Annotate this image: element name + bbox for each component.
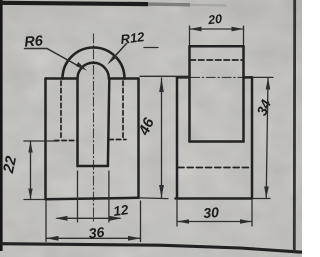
base top edge left segment bbox=[177, 76, 190, 79]
boss bottom edge bbox=[190, 140, 244, 143]
dim 22: bottom arrow bbox=[28, 189, 32, 200]
base right edge bbox=[251, 77, 254, 198]
base left edge bbox=[176, 77, 179, 198]
dim 12: dimension line bbox=[57, 217, 120, 219]
dim 46: dimension line bbox=[161, 78, 163, 198]
dim 36: dimension line bbox=[46, 237, 141, 239]
dim 34: bottom extension bbox=[254, 198, 271, 200]
dim 20: left arrow bbox=[190, 27, 202, 32]
dim 12: right extension line bbox=[108, 171, 110, 222]
leader R12 bbox=[110, 44, 127, 62]
base top edge right segment bbox=[244, 76, 253, 79]
hidden line: boss bottom left stub bbox=[55, 140, 78, 142]
dim 20: right arrow bbox=[232, 27, 244, 32]
dim 30: right arrow bbox=[240, 219, 252, 224]
dim 34: top arrow bbox=[266, 77, 271, 89]
rect left edge bbox=[44, 79, 47, 200]
svg-text:30: 30 bbox=[203, 204, 220, 221]
svg-text:20: 20 bbox=[206, 12, 222, 27]
rect right edge bbox=[137, 79, 140, 198]
page edge: right border line bbox=[293, 0, 296, 251]
dim 36: extension lines bbox=[45, 201, 47, 242]
dim 34: top extension bbox=[254, 76, 274, 78]
dim 34: bottom arrow bbox=[264, 187, 269, 199]
dim 30: dimension line bbox=[177, 221, 252, 223]
svg-text:12: 12 bbox=[112, 202, 129, 219]
hidden line: slot top level bbox=[190, 59, 243, 61]
dim 22: dimension line bbox=[30, 141, 32, 200]
dim 30: left arrow bbox=[177, 219, 189, 224]
outer arc R12 bbox=[63, 48, 125, 79]
base bottom edge bbox=[176, 197, 253, 200]
slot right edge bbox=[108, 79, 109, 167]
hidden line: boss bottom right stub bbox=[109, 139, 126, 141]
dim 46: up arrow bbox=[159, 78, 164, 92]
dim 46: down arrow bbox=[159, 185, 164, 198]
centerline (vertical axis of front view) bbox=[93, 34, 95, 222]
page edge: left black strip bbox=[0, 0, 3, 251]
dim 22: top arrow bbox=[28, 141, 32, 153]
inner arc R6 bbox=[78, 63, 109, 79]
svg-text:R12: R12 bbox=[120, 29, 146, 47]
rect bottom edge bbox=[46, 198, 139, 200]
page edge: bottom frame line bbox=[0, 244, 302, 253]
hidden line: boss left side bbox=[60, 81, 62, 140]
hidden line: slot bottom level bbox=[178, 167, 252, 169]
dim 36: left arrow bbox=[46, 236, 59, 241]
dim 20: dimension line bbox=[190, 28, 244, 30]
dim 20: extension lines above boss bbox=[189, 26, 191, 45]
centerline horizontal (arc centre level) bbox=[191, 76, 243, 78]
dim 22: bottom extension line bbox=[24, 199, 44, 201]
boss right edge bbox=[242, 46, 245, 141]
slot bottom edge bbox=[78, 165, 108, 168]
boss top edge bbox=[190, 45, 244, 48]
leader R6 bbox=[25, 49, 83, 69]
page edge: top border line bbox=[0, 3, 148, 4]
hidden line: boss right side bbox=[122, 81, 124, 140]
dim 46: top extension (long line to side view base top) bbox=[140, 75, 190, 77]
boss left edge bbox=[188, 46, 191, 141]
top edge right segment bbox=[109, 77, 139, 80]
dim 46: top extension stub bbox=[144, 47, 158, 49]
dim 30: extension lines bbox=[176, 201, 178, 227]
dim 34: dimension line bbox=[266, 77, 268, 198]
slot left edge bbox=[76, 79, 79, 167]
top edge left segment bbox=[46, 77, 78, 80]
dim 36: right arrow bbox=[128, 236, 141, 241]
dim 22: top extension line bbox=[24, 140, 58, 142]
svg-text:R6: R6 bbox=[24, 33, 45, 51]
svg-text:36: 36 bbox=[88, 224, 105, 242]
dim 12: left arrow bbox=[55, 216, 68, 221]
dim 12: left extension line bbox=[77, 171, 79, 222]
dim 12: right arrow bbox=[110, 216, 123, 221]
dim 46: bottom extension (front bottom edge extended) bbox=[140, 197, 168, 200]
